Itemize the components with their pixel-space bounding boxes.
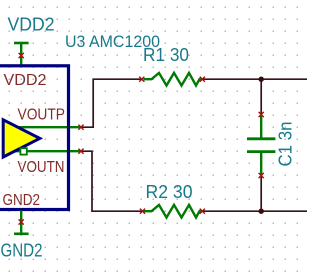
pin X VOUTP net [78, 125, 83, 130]
wire VOUTP pin (green) [10, 126, 80, 128]
pin X R2 left [140, 209, 145, 214]
pin X VOUTN net [78, 149, 83, 154]
resistor R1 [144, 73, 202, 86]
pin X C1 top [259, 112, 264, 117]
wire net R2 to right edge [203, 210, 308, 212]
junction square on VOUTN [20, 148, 26, 154]
pin-connection X at VDD2 stem [19, 53, 24, 58]
svg-text:VOUTN: VOUTN [18, 159, 65, 176]
wire net R1 to right edge [203, 78, 308, 80]
junction dot bottom [259, 209, 264, 214]
svg-text:VDD2: VDD2 [4, 72, 47, 89]
resistor R2 [144, 205, 202, 218]
pin X R2 right [200, 209, 205, 214]
IC U3 body [0, 66, 69, 210]
power symbol VDD2 [14, 43, 29, 65]
svg-text:GND2: GND2 [3, 192, 41, 209]
wire VOUTN pin (green) [15, 150, 80, 152]
ground symbol GND2 [14, 211, 29, 234]
pin X C1 bottom [259, 173, 264, 178]
svg-text:GND2: GND2 [1, 241, 43, 261]
svg-text:R1 30: R1 30 [143, 45, 189, 65]
wire C1 top stub [260, 79, 262, 114]
svg-text:VDD2: VDD2 [8, 15, 55, 35]
wire C1 bottom stub [260, 176, 262, 211]
wire net VOUTN to R2 [81, 151, 143, 211]
svg-text:R2 30: R2 30 [146, 182, 193, 202]
svg-text:C1 3n: C1 3n [276, 122, 296, 167]
op-amp triangle U3 [3, 120, 40, 157]
svg-text:VOUTP: VOUTP [18, 107, 66, 124]
pin X R1 left [139, 77, 144, 82]
wire net VOUTP to R1 [81, 79, 141, 127]
pin X R1 right [200, 77, 205, 82]
junction dot top [259, 77, 264, 82]
capacitor C1 [247, 116, 275, 175]
pin-connection X at GND2 stem [19, 219, 24, 224]
